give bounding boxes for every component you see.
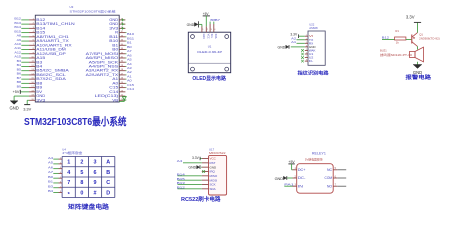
- svg-text:B12: B12: [382, 36, 390, 40]
- mounting hole bottom-right of U1: [225, 67, 229, 71]
- ground symbol GND: [9, 101, 18, 111]
- svg-text:COM: COM: [325, 176, 333, 180]
- svg-text:RX: RX: [309, 41, 314, 45]
- wire net A11: [21, 49, 29, 51]
- pin 3 (RX) of U22: [305, 41, 314, 45]
- pin 5 of U4: [59, 177, 63, 179]
- svg-text:GND: GND: [309, 45, 316, 49]
- svg-text:C: C: [106, 180, 110, 186]
- svg-text:*: *: [68, 192, 71, 198]
- pin 1 (DC+) of RELEY1: [293, 167, 306, 172]
- svg-text:R1: R1: [395, 29, 399, 33]
- svg-text:B: B: [106, 170, 110, 176]
- wire net B14: [178, 175, 202, 177]
- mounting hole bottom-left of U1: [191, 67, 195, 71]
- pin 5 (MISO) of U17: [202, 174, 218, 178]
- pin 35 (B10) of U3: [109, 39, 125, 43]
- pin 1 (VI) of U22: [305, 34, 314, 38]
- svg-text:报警电路: 报警电路: [406, 73, 432, 81]
- wire net B14: [21, 27, 29, 29]
- svg-text:RC522刷卡电路: RC522刷卡电路: [181, 195, 221, 203]
- svg-text:TX: TX: [309, 38, 314, 42]
- LED D1 (C13 indicator): [119, 97, 126, 102]
- wire net B3: [21, 61, 29, 63]
- pin 26 (A1) of U3: [112, 77, 125, 81]
- wire net B12: [21, 19, 29, 21]
- pin 32 (A7/SPI_MOSI) of U3: [86, 52, 126, 56]
- wire GND to U1 pin 1: [199, 24, 202, 26]
- svg-text:矩阵键盘电路: 矩阵键盘电路: [68, 203, 110, 211]
- pin 7 (U2) of U22: [305, 56, 314, 60]
- pin 17 (B9) of U3: [29, 86, 43, 90]
- pin 18 (5V) of U3: [29, 90, 44, 94]
- pin 2 (DC-) of RELEY1: [293, 175, 306, 180]
- pin 20 (3V3) of U3: [29, 98, 46, 102]
- pin 37 (R) of U3: [115, 31, 125, 35]
- svg-text:B4: B4: [48, 189, 54, 193]
- svg-text:4: 4: [214, 29, 216, 31]
- wire Q1 collector to buzzer: [417, 46, 419, 49]
- svg-text:GND: GND: [278, 45, 286, 49]
- OLED module U1 body: [188, 32, 230, 72]
- svg-text:2: 2: [207, 29, 209, 31]
- svg-text:3.3V: 3.3V: [290, 33, 298, 37]
- wire net B1: [53, 182, 58, 184]
- wire net A7: [125, 49, 126, 51]
- pin 2 (VCC) of U1: [206, 26, 209, 39]
- svg-text:U1: U1: [208, 45, 212, 49]
- wire net A0: [125, 78, 126, 80]
- pin 8 (D-) of U22: [305, 59, 314, 63]
- pin 30 (A5/SPI_SCK) of U3: [89, 60, 126, 64]
- mounting hole top-left of U1: [191, 35, 195, 39]
- svg-text:Q1: Q1: [419, 32, 423, 36]
- pin 3 (GND) of U17: [202, 165, 217, 169]
- pin 9 (A12/USB_DP) of U3: [29, 52, 66, 56]
- svg-text:A7: A7: [48, 170, 54, 174]
- power flag 3V3 on U3 pin 38: [121, 27, 124, 30]
- pin 19 (GND) of U3: [29, 94, 46, 98]
- ground symbol GND at U17: [188, 165, 200, 169]
- pin 3 (SCL) of U1: [210, 24, 213, 39]
- pin 5 (WAK) of U22: [305, 48, 316, 52]
- svg-text:STM32F103C8T6最小系统: STM32F103C8T6最小系统: [70, 8, 116, 13]
- svg-text:4*4矩阵键盘: 4*4矩阵键盘: [62, 151, 82, 155]
- wire net A5: [125, 57, 126, 59]
- svg-text:指纹识别电路: 指纹识别电路: [298, 69, 329, 76]
- no-connect mark on U17 IRQ: [202, 170, 205, 173]
- power flag 3.3V at U17: [192, 156, 200, 160]
- svg-text:AS608: AS608: [309, 26, 318, 30]
- pin 1 (B12) of U3: [29, 18, 46, 22]
- pin 10 (A15) of U3: [29, 56, 46, 60]
- RC522 module U17 body: [209, 155, 227, 195]
- svg-text:DC-: DC-: [298, 176, 306, 180]
- wire 3.3V to U17 VCC: [200, 158, 202, 160]
- wire net B15: [21, 32, 29, 34]
- pin 4 (GND) of U22: [305, 45, 316, 49]
- wire net A6: [125, 53, 126, 55]
- wire net B10: [125, 32, 126, 34]
- wire PA1 to RELEY1 IN: [284, 185, 292, 187]
- wire GND to U17 GND: [200, 166, 203, 168]
- svg-text:GND: GND: [187, 23, 195, 27]
- svg-text:DC+: DC+: [298, 168, 306, 172]
- svg-text:SDA: SDA: [214, 34, 217, 39]
- pin 6 (A9/UART1_TX) of U3: [29, 39, 70, 43]
- wire B12 to R1: [382, 39, 395, 41]
- svg-text:9: 9: [94, 180, 97, 186]
- svg-text:3: 3: [94, 160, 97, 166]
- pin 28 (A3/UART2_RX) of U3: [86, 69, 126, 73]
- pin 14 (B6/I2C_SCL) of U3: [29, 73, 66, 77]
- wire from RELEY1 NO: [337, 185, 346, 187]
- pin 34 (B1) of U3: [112, 43, 125, 47]
- svg-text:VB: VB: [112, 98, 118, 102]
- pin 27 (A2/UART2_TX) of U3: [86, 73, 126, 77]
- keypad U4 grid body: [62, 157, 115, 198]
- wire net B15: [178, 179, 202, 181]
- pin 23 (C14) of U3: [109, 90, 125, 94]
- pin 3 of U4: [59, 167, 63, 169]
- wire GND to U22 pin 4: [291, 46, 305, 48]
- mounting hole top-right of U1: [225, 35, 229, 39]
- wire net B12: [178, 188, 202, 190]
- svg-text:GND: GND: [9, 105, 18, 110]
- wire net B5: [21, 70, 29, 72]
- pin 4 (B15) of U3: [29, 31, 46, 35]
- pin 3 (B14) of U3: [29, 26, 46, 30]
- pin 38 (3V3) of U3: [109, 26, 125, 30]
- svg-text:6: 6: [94, 170, 97, 176]
- wire net B0: [125, 44, 126, 46]
- svg-text:NO: NO: [327, 184, 333, 188]
- svg-text:STM32F103C8T6最小系统: STM32F103C8T6最小系统: [24, 115, 127, 128]
- pin 1 of U4: [59, 158, 63, 160]
- pin 6 (U1) of U22: [305, 52, 314, 56]
- pin 6 (MOSI) of U17: [202, 178, 218, 182]
- no-connect mark: [301, 53, 304, 56]
- pin 22 (LED(C13)) of U3: [95, 94, 126, 98]
- pin 33 (B0) of U3: [112, 48, 125, 52]
- wire from U3 pin 22 to LED: [124, 95, 126, 98]
- svg-text:OLED显示电路: OLED显示电路: [192, 75, 226, 82]
- svg-text:1k: 1k: [396, 41, 400, 45]
- wire to GND: [14, 96, 29, 101]
- wire net A8: [21, 36, 29, 38]
- wire net B0: [53, 177, 58, 179]
- pin 36 (B11) of U3: [109, 35, 125, 39]
- ground symbol GND at U22: [278, 45, 289, 49]
- pin 7 of U4: [59, 186, 63, 188]
- ground symbol GND at relay: [275, 176, 287, 181]
- pin 8 (SDA) of U17: [202, 187, 216, 191]
- wire net A7: [53, 172, 58, 174]
- IC U3 STM32F103C8T6 symbol body: [35, 15, 119, 102]
- wire net B13: [21, 23, 29, 25]
- wire net A4: [125, 61, 126, 63]
- svg-text:SDA: SDA: [210, 187, 216, 191]
- svg-text:+5V: +5V: [288, 160, 295, 164]
- pin 6 of U4: [59, 182, 63, 184]
- svg-text:+5V: +5V: [13, 90, 20, 94]
- svg-text:3.3V: 3.3V: [23, 107, 31, 112]
- svg-text:B7: B7: [215, 18, 221, 22]
- svg-text:WAK: WAK: [309, 48, 316, 52]
- svg-text:OLED-0.96-4P: OLED-0.96-4P: [197, 50, 222, 54]
- wire net B4: [53, 191, 58, 193]
- pin 1 (GND) of U1: [202, 26, 205, 39]
- power flag 3.3V at alarm: [406, 15, 421, 23]
- wire net A1: [125, 74, 126, 76]
- svg-text:D-: D-: [309, 59, 314, 63]
- svg-text:5: 5: [80, 170, 83, 176]
- ground symbol GND at OLED: [187, 21, 199, 27]
- buzzer BUZ1 speaker symbol: [410, 47, 424, 62]
- svg-text:SCL: SCL: [210, 34, 213, 39]
- ground symbol GND at alarm: [413, 65, 422, 75]
- svg-text:B9: B9: [17, 84, 22, 88]
- pin 2 (TX) of U22: [305, 38, 314, 42]
- pin 4 of U4: [59, 172, 63, 174]
- wire +5V to RELEY1 DC+: [291, 164, 294, 170]
- wire net A10: [21, 44, 29, 46]
- pin 21 (VB) of U3: [112, 98, 125, 102]
- svg-text:1: 1: [67, 160, 70, 166]
- pin 25 (A0) of U3: [112, 81, 125, 85]
- wire net B11: [125, 36, 126, 38]
- wire net A9: [21, 40, 29, 42]
- svg-text:U2: U2: [309, 56, 314, 60]
- svg-text:B12: B12: [177, 185, 186, 189]
- ground symbol on U3 pin: [121, 23, 124, 26]
- pin 2 (RST) of U17: [202, 161, 216, 165]
- pin 7 (NO) of RELEY1: [327, 184, 337, 189]
- svg-text:VCC: VCC: [206, 34, 209, 39]
- svg-text:A2: A2: [291, 36, 297, 40]
- wire net B3: [53, 187, 58, 189]
- fingerprint module U22 body: [308, 31, 325, 65]
- svg-text:A6: A6: [48, 165, 54, 169]
- svg-text:NC: NC: [327, 168, 333, 172]
- svg-text:GND: GND: [275, 177, 284, 181]
- pin 2 of U4: [59, 162, 63, 164]
- wire to +5V: [21, 91, 30, 93]
- pin 5 (NC) of RELEY1: [327, 167, 337, 172]
- svg-text:4: 4: [67, 170, 70, 176]
- svg-text:蜂鸣器SD120-PT-10: 蜂鸣器SD120-PT-10: [380, 53, 413, 57]
- wire net B9: [21, 87, 29, 89]
- pin 4 (IRQ) of U17: [202, 170, 216, 174]
- svg-text:3: 3: [211, 29, 213, 31]
- pin 24 (C15) of U3: [109, 86, 125, 90]
- wire net A2: [125, 70, 126, 72]
- no-connect mark: [301, 60, 304, 63]
- svg-text:0: 0: [80, 190, 83, 196]
- svg-text:C14: C14: [127, 87, 135, 91]
- wire SCL to U1 pin 3: [209, 22, 211, 24]
- wire net B4: [21, 65, 29, 67]
- wire Q1 emitter to 3.3V: [417, 23, 419, 33]
- power flag +5V at OLED: [203, 12, 210, 16]
- pin 40 (GND) of U3: [109, 18, 125, 22]
- svg-text:B3: B3: [48, 184, 54, 188]
- power flag 3.3V at U22: [290, 33, 298, 38]
- svg-text:A1: A1: [291, 40, 297, 44]
- wire net C14: [125, 87, 126, 89]
- wire net A1: [297, 42, 305, 44]
- no-connect mark: [301, 49, 304, 52]
- svg-text:+5V: +5V: [203, 12, 210, 16]
- wire to 3.3V: [27, 100, 29, 104]
- svg-text:RELEY1: RELEY1: [312, 152, 326, 156]
- svg-text:U1: U1: [309, 52, 314, 56]
- svg-text:MFRC522: MFRC522: [209, 151, 226, 155]
- wire net C15: [125, 82, 126, 84]
- resistor R1: [395, 29, 406, 45]
- svg-text:B1: B1: [48, 180, 54, 184]
- wire net A12: [21, 53, 29, 55]
- svg-text:#: #: [94, 190, 97, 196]
- svg-text:VI: VI: [309, 34, 314, 38]
- wire net B1: [125, 40, 126, 42]
- pin 8 of U4: [59, 191, 63, 193]
- svg-text:1: 1: [202, 29, 204, 31]
- pin 8 (A11/USB_DM) of U3: [29, 48, 66, 52]
- wire net B13: [178, 183, 202, 185]
- pin 12 (B4) of U3: [29, 65, 43, 69]
- wire R1 to Q1 base: [406, 39, 412, 41]
- pin 16 (B8) of U3: [29, 81, 43, 85]
- wire from RELEY1 NC: [337, 169, 346, 171]
- pin 31 (A6/SPI_MISO) of U3: [86, 56, 126, 60]
- wire net B8: [21, 82, 29, 84]
- svg-text:GND: GND: [413, 70, 422, 75]
- pin 11 (B3) of U3: [29, 60, 43, 64]
- svg-text:5V继电器模块: 5V继电器模块: [305, 157, 323, 162]
- wire net A15: [21, 57, 29, 59]
- svg-text:3.3V: 3.3V: [406, 15, 415, 20]
- pin 13 (B5/I2C_SMBA) of U3: [29, 69, 70, 73]
- wire buzzer to GND: [417, 62, 419, 65]
- wire SDA to U1 pin 4: [213, 22, 215, 24]
- wire 3.3V to U22 pin 1: [299, 35, 305, 37]
- pin 7 (A10/UART1_RX) of U3: [29, 43, 73, 47]
- pin 15 (B7/I2C_SDA) of U3: [29, 77, 67, 81]
- no-connect mark: [301, 56, 304, 59]
- power flag +5V at relay: [288, 160, 295, 164]
- wire +5V to U1 pin 2: [205, 16, 207, 26]
- svg-text:2N3906(TO-92): 2N3906(TO-92): [419, 36, 440, 40]
- wire net A3: [125, 65, 126, 67]
- svg-text:B0: B0: [48, 175, 54, 179]
- wire net A2: [297, 39, 305, 41]
- pin 29 (A4/SPI_NSS) of U3: [89, 65, 126, 69]
- pin 39 (GND) of U3: [109, 22, 125, 26]
- svg-text:D: D: [106, 190, 110, 196]
- transistor Q1 2N3906: [412, 32, 440, 46]
- svg-text:GND: GND: [202, 34, 205, 40]
- wire net B7: [21, 78, 29, 80]
- relay module RELEY1 body: [297, 164, 334, 194]
- svg-text:8: 8: [80, 180, 83, 186]
- wire net A5: [53, 163, 58, 165]
- svg-text:3.3V: 3.3V: [192, 156, 200, 160]
- pin 4 (SDA) of U1: [214, 24, 217, 39]
- power flag 3.3V: [23, 105, 31, 112]
- wire net A4: [53, 158, 58, 160]
- svg-text:A4: A4: [48, 156, 54, 160]
- svg-text:7: 7: [67, 180, 70, 186]
- wire net A6: [53, 168, 58, 170]
- svg-text:A4: A4: [177, 159, 183, 163]
- svg-text:A5: A5: [48, 161, 54, 165]
- wire from RELEY1 COM: [337, 177, 346, 179]
- wire GND to RELEY1 DC-: [287, 177, 292, 179]
- pin 2 (B13/TIM1_CH1N) of U3: [29, 22, 76, 26]
- ground symbol on U3 pin: [121, 19, 124, 22]
- wire A4 to U17 RST: [183, 162, 202, 164]
- pin 6 (COM) of RELEY1: [325, 175, 338, 180]
- svg-text:GND: GND: [188, 166, 196, 170]
- svg-text:2: 2: [80, 160, 83, 166]
- wire net B6: [21, 74, 29, 76]
- svg-text:BUZ1: BUZ1: [380, 48, 387, 52]
- pin 1 (VCC) of U17: [202, 157, 217, 161]
- svg-text:IN: IN: [298, 184, 304, 188]
- svg-text:A: A: [106, 160, 110, 166]
- pin 7 (SCK) of U17: [202, 183, 216, 187]
- pin 3 (IN) of RELEY1: [293, 184, 304, 189]
- pin 5 (A8/TIM1_CH1) of U3: [29, 35, 69, 39]
- power flag +5V: [13, 90, 21, 94]
- svg-text:3V3: 3V3: [36, 98, 45, 102]
